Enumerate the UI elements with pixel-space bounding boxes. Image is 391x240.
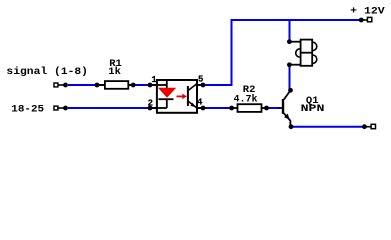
resistor R1 1k	[95, 81, 136, 89]
svg-text:2: 2	[148, 98, 153, 108]
node: +12V terminal	[359, 17, 372, 22]
LED inside optocoupler	[157, 81, 176, 108]
wire: opto pin 4 to R2	[203, 107, 232, 109]
node: opto pin 2	[148, 106, 153, 111]
svg-text:1k: 1k	[108, 66, 121, 78]
svg-text:5: 5	[198, 75, 203, 85]
node: signal (1-8) input terminal	[54, 83, 68, 88]
svg-text:NPN: NPN	[301, 103, 325, 115]
wire: signal row 1 from input terminal to opto pin 1	[68, 84, 150, 86]
optocoupler pin stubs	[150, 85, 203, 108]
node: opto pin 4	[201, 106, 206, 111]
LED light arrow to phototransistor	[177, 94, 187, 100]
svg-text:+ 12V: + 12V	[350, 5, 385, 17]
svg-text:18-25: 18-25	[11, 103, 44, 115]
node: Q1 collector junction	[288, 88, 293, 93]
node: opto pin 5	[201, 83, 206, 88]
wire: rail drop to relay coil top	[289, 20, 291, 42]
wire: row 2 (18-25 return) from input terminal to opto pin 2	[68, 107, 150, 109]
svg-text:1: 1	[151, 75, 157, 85]
node: relay top junction	[287, 39, 292, 44]
wire: relay coil bottom to Q1 collector	[289, 65, 291, 90]
optocoupler U1 U1 box	[157, 80, 197, 113]
svg-text:signal (1-8): signal (1-8)	[6, 66, 88, 78]
wire: +12V top rail	[231, 19, 362, 21]
wire: R2 to Q1 base	[267, 107, 281, 109]
relay coil K1	[290, 40, 317, 66]
node: Q1 emitter junction	[289, 124, 294, 129]
transistor Q1 NPN	[279, 91, 290, 127]
node: emitter output terminal bottom right	[362, 124, 376, 129]
phototransistor inside optocoupler	[188, 84, 197, 108]
wire: opto pin 5 to +12V rail riser	[203, 20, 232, 85]
node: opto pin 1	[148, 83, 153, 88]
node: 18-25 input terminal	[54, 106, 68, 111]
resistor R2 4.7k	[229, 104, 269, 112]
node: relay bottom junction	[287, 62, 292, 67]
svg-text:4.7k: 4.7k	[234, 94, 258, 106]
svg-text:4: 4	[197, 97, 203, 107]
wire: bottom rail from Q1 emitter to output terminal	[291, 126, 364, 128]
